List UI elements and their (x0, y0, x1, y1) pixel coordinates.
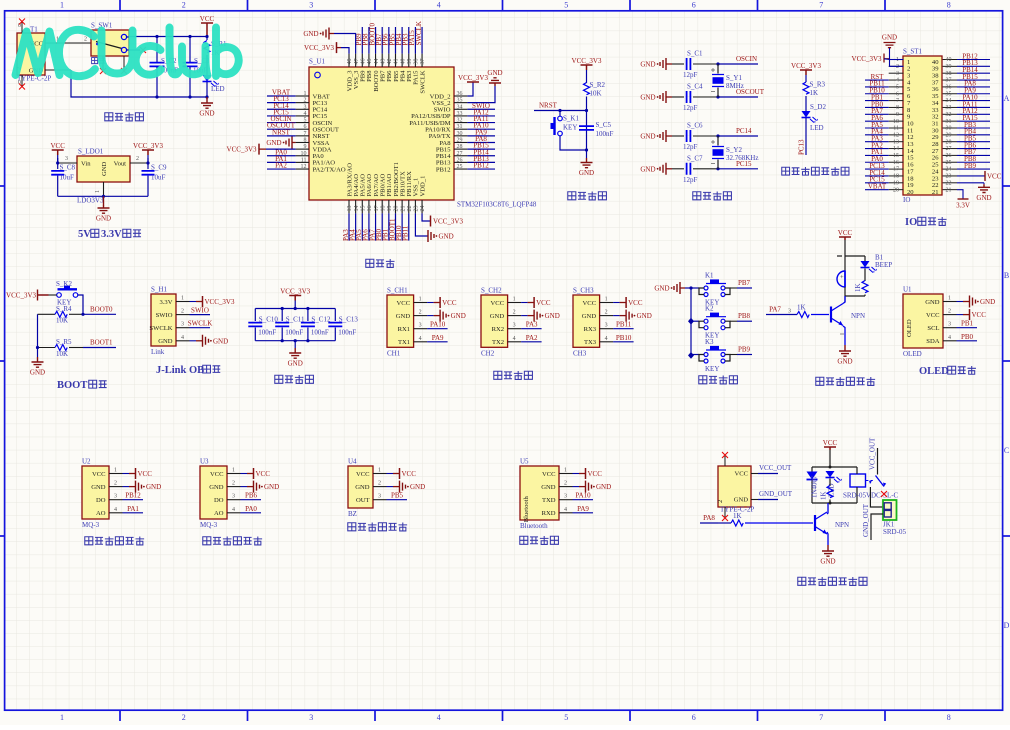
svg-text:SRD-05: SRD-05 (883, 528, 906, 536)
svg-text:1K: 1K (733, 512, 742, 520)
header left pin 18 (889, 175, 904, 177)
svg-text:1K: 1K (820, 491, 828, 500)
svg-text:17: 17 (374, 206, 380, 212)
svg-text:OSCIN: OSCIN (736, 55, 757, 63)
mcu right pin 30 PA9/TX (454, 135, 467, 137)
svg-text:30: 30 (946, 126, 952, 132)
header right pin 32 (943, 113, 957, 115)
wire bottom rail (58, 195, 148, 197)
svg-text:11: 11 (301, 157, 307, 163)
svg-text:GND_OUT: GND_OUT (759, 490, 793, 498)
svg-text:GND_OUT: GND_OUT (862, 503, 870, 537)
svg-text:GND: GND (882, 34, 897, 42)
svg-text:BOOT1: BOOT1 (90, 339, 113, 347)
svg-text:3: 3 (65, 156, 68, 162)
power VCC for LDO (52, 150, 64, 155)
svg-text:PA2/TX/AO: PA2/TX/AO (313, 166, 346, 173)
svg-text:19: 19 (387, 206, 393, 212)
mcu bottom pin 20 PB2/BOOT1 (394, 200, 396, 213)
svg-text:22: 22 (407, 206, 413, 212)
svg-text:1: 1 (513, 297, 516, 303)
svg-text:VCC_OUT: VCC_OUT (759, 464, 792, 472)
relay top rail (812, 466, 857, 468)
ground alarm (844, 345, 846, 348)
crystal S_Y1 8MHz (717, 64, 719, 74)
capacitor S_C12 100nF (307, 309, 309, 322)
svg-text:1: 1 (564, 468, 567, 474)
svg-text:18: 18 (380, 206, 386, 212)
svg-text:VCC: VCC (442, 299, 457, 307)
title alcohol module 1 (85, 537, 93, 545)
svg-text:33: 33 (457, 111, 463, 117)
header left pin 11 (889, 127, 904, 129)
header right pin 38 (943, 72, 957, 74)
svg-text:TX2: TX2 (492, 339, 504, 346)
mcu VSS_3 GND top (323, 28, 329, 40)
net OSCIN (718, 63, 758, 65)
svg-text:3: 3 (513, 323, 516, 329)
svg-text:NPN: NPN (835, 521, 849, 529)
svg-text:39: 39 (407, 59, 413, 65)
svg-text:2: 2 (948, 309, 951, 315)
svg-text:BEEP: BEEP (875, 261, 892, 269)
svg-text:GND: GND (640, 133, 655, 141)
svg-text:28: 28 (457, 144, 463, 150)
svg-text:GND: GND (640, 94, 655, 102)
mcu right pin 28 PB15 (454, 148, 467, 150)
svg-text:6: 6 (304, 124, 307, 130)
module U4 body (348, 466, 373, 508)
svg-text:12pF: 12pF (683, 143, 698, 151)
svg-text:K3: K3 (705, 338, 714, 346)
svg-text:10uF: 10uF (60, 174, 75, 182)
svg-text:VCC_3V3: VCC_3V3 (433, 218, 463, 226)
svg-text:12: 12 (301, 164, 307, 170)
svg-text:GND: GND (487, 69, 502, 77)
mcu bottom pin 19 PB1/AO (388, 200, 390, 213)
svg-text:GND: GND (734, 497, 749, 504)
svg-text:PA2: PA2 (275, 162, 287, 170)
svg-text:GND: GND (199, 110, 214, 118)
svg-text:VCC: VCC (583, 300, 597, 307)
transistor NPN relay (814, 515, 816, 531)
LDO ground pin (103, 182, 105, 196)
LED S_D2 (802, 111, 811, 118)
header left pin 13 (889, 141, 904, 143)
button S_K2 KEY (57, 293, 62, 298)
svg-text:VCC: VCC (823, 439, 838, 447)
svg-text:S_CH1: S_CH1 (387, 287, 408, 295)
svg-text:27: 27 (946, 146, 952, 152)
mcu left pin 4 PC15 (296, 115, 309, 117)
svg-text:100nF: 100nF (258, 329, 276, 337)
svg-text:VCC: VCC (588, 470, 603, 478)
header right pin 21 (943, 189, 957, 191)
svg-text:24: 24 (420, 206, 426, 212)
mcu right pin 36 VDD_2 (454, 95, 467, 97)
svg-text:VCC: VCC (734, 471, 748, 478)
svg-text:4: 4 (437, 713, 441, 722)
svg-text:GND: GND (976, 194, 991, 202)
switch bottom pins no-connect (103, 56, 124, 70)
svg-text:GND: GND (654, 285, 669, 293)
power VCC_3V3 for LDO out (142, 150, 154, 155)
button S_K1 KEY (558, 116, 563, 121)
resistor 1K base (797, 312, 809, 318)
svg-text:7: 7 (304, 131, 307, 137)
svg-text:RX1: RX1 (398, 326, 410, 333)
power VCC_3V3 led (800, 70, 812, 75)
svg-text:3.3V: 3.3V (956, 202, 970, 210)
resistor S_R5 10K (38, 347, 56, 349)
svg-text:29: 29 (946, 132, 952, 138)
relay connector shell pins no-connect (724, 456, 726, 517)
svg-text:VCC: VCC (628, 299, 643, 307)
title dianyuan-dianlu (105, 113, 113, 121)
svg-text:4: 4 (181, 335, 184, 341)
svg-text:PB1: PB1 (961, 320, 974, 328)
svg-text:9: 9 (896, 112, 899, 118)
svg-text:GND: GND (158, 338, 173, 345)
svg-text:34: 34 (457, 104, 463, 110)
capacitor S_C5 100nF (579, 126, 594, 130)
svg-text:38: 38 (414, 59, 420, 65)
svg-text:29: 29 (457, 137, 463, 143)
svg-text:S_K2: S_K2 (56, 280, 72, 288)
svg-text:1N4007: 1N4007 (811, 475, 819, 498)
wire Vout (130, 162, 148, 164)
svg-text:TX3: TX3 (584, 339, 597, 346)
svg-text:2: 2 (84, 37, 87, 43)
svg-text:PA1: PA1 (127, 505, 139, 513)
mcu U1 STM32F103C8T6 body (309, 67, 454, 200)
svg-text:S_Y2: S_Y2 (726, 146, 742, 154)
svg-text:VCC: VCC (402, 470, 417, 478)
svg-text:1: 1 (896, 57, 899, 63)
header right pin 30 (943, 127, 957, 129)
mcu top pin 43 PB7 (381, 54, 383, 67)
svg-text:IO: IO (903, 196, 910, 204)
mcu VDD_2 to VCC_3V3 (467, 82, 473, 96)
svg-text:PB5: PB5 (391, 492, 404, 500)
mcu bottom pin 17 PA7/AO (375, 200, 377, 213)
ground relay (827, 545, 829, 548)
svg-text:14: 14 (354, 206, 360, 212)
svg-text:20: 20 (907, 189, 914, 196)
svg-text:GND: GND (91, 484, 106, 491)
header left pin 5 (889, 86, 904, 88)
capacitor S_C4 12pF (660, 91, 666, 103)
svg-text:PB12: PB12 (436, 166, 451, 173)
svg-text:12pF: 12pF (683, 176, 698, 184)
module U5 body (520, 466, 559, 520)
svg-text:LDO3V3: LDO3V3 (77, 197, 104, 205)
mcu left pin 11 PA1/AO (296, 161, 309, 163)
svg-text:VCC: VCC (536, 299, 551, 307)
svg-text:28: 28 (946, 139, 952, 145)
title reset circuit (568, 192, 576, 200)
net PC14 (718, 135, 758, 137)
svg-text:26: 26 (946, 153, 952, 159)
resistor S_R3 1K (803, 82, 809, 94)
svg-text:VCC: VCC (50, 142, 65, 150)
svg-text:5V: 5V (78, 229, 91, 240)
svg-text:PA7: PA7 (769, 306, 781, 314)
svg-text:19: 19 (893, 180, 899, 186)
svg-text:DO: DO (96, 497, 106, 504)
header pin23 VCC (957, 175, 985, 177)
svg-text:3: 3 (232, 494, 235, 500)
svg-text:37: 37 (946, 78, 952, 84)
svg-text:11: 11 (893, 126, 899, 132)
svg-text:44: 44 (374, 59, 380, 65)
capacitor S_C11 100nF (281, 309, 283, 322)
svg-text:K1: K1 (705, 272, 714, 280)
svg-text:S_R4: S_R4 (56, 305, 72, 313)
svg-text:1: 1 (181, 296, 184, 302)
mcu right pin 32 PA11/USB/DM (454, 122, 467, 124)
svg-text:S_CH2: S_CH2 (481, 287, 502, 295)
transistor NPN alarm (830, 307, 832, 323)
svg-text:38: 38 (946, 71, 952, 77)
svg-text:SDA: SDA (926, 338, 939, 345)
svg-text:A: A (1004, 94, 1010, 103)
svg-text:33: 33 (946, 105, 952, 111)
net GND_OUT wire (871, 514, 883, 540)
svg-text:VCC: VCC (972, 311, 987, 319)
svg-text:GND: GND (596, 483, 611, 491)
mcu VSS_2 to GND (467, 86, 495, 103)
svg-text:PA3: PA3 (526, 321, 538, 329)
svg-text:NPN: NPN (851, 312, 865, 320)
filter bottom rail (255, 340, 335, 342)
relay coil SRD-05VDC-SL-C (850, 474, 866, 487)
svg-text:22: 22 (946, 180, 952, 186)
svg-text:S_C8: S_C8 (60, 164, 76, 172)
resistor S_R2 10K (584, 83, 590, 95)
mcu left pin 8 VSSA (296, 141, 309, 143)
svg-text:4: 4 (419, 336, 422, 342)
svg-text:S_C4: S_C4 (687, 83, 703, 91)
svg-text:U1: U1 (903, 286, 912, 294)
svg-text:S_D2: S_D2 (810, 103, 826, 111)
svg-text:3: 3 (304, 104, 307, 110)
svg-text:21: 21 (932, 189, 939, 196)
svg-text:GND: GND (545, 312, 560, 320)
svg-text:NRST: NRST (539, 102, 558, 110)
resistor S_R1 (206, 37, 208, 41)
svg-text:2: 2 (182, 1, 186, 10)
svg-text:6: 6 (896, 91, 899, 97)
title crystal circuit (693, 192, 701, 200)
svg-text:U2: U2 (82, 458, 91, 466)
svg-text:GND: GND (288, 360, 303, 368)
LED relay (826, 471, 835, 478)
header pin21 3.3V (957, 190, 963, 199)
svg-text:PB9: PB9 (738, 346, 751, 354)
svg-text:RX2: RX2 (492, 326, 504, 333)
net GND_OUT from connector (751, 499, 758, 501)
svg-text:S_C7: S_C7 (687, 154, 703, 162)
svg-text:VCC: VCC (138, 470, 153, 478)
mcu left pin 5 OSCIN (296, 122, 309, 124)
mcu pin8 VSSA ground (286, 136, 292, 148)
svg-text:8: 8 (947, 713, 951, 722)
svg-text:7: 7 (819, 1, 823, 10)
mcu bottom pin 23 VSS_1 (414, 200, 416, 213)
svg-text:4: 4 (304, 111, 307, 117)
svg-text:1K: 1K (810, 89, 819, 97)
svg-text:1: 1 (605, 297, 608, 303)
svg-text:13: 13 (347, 206, 353, 212)
header left pin 19 (889, 182, 904, 184)
svg-text:30: 30 (457, 131, 463, 137)
svg-text:3: 3 (896, 71, 899, 77)
svg-text:GND: GND (925, 299, 940, 306)
svg-text:31: 31 (457, 124, 463, 130)
module S_H1 body (151, 294, 176, 346)
svg-text:10K: 10K (56, 350, 68, 358)
svg-text:CH2: CH2 (481, 349, 495, 357)
MCUclub watermark logo (16, 28, 239, 77)
svg-text:3.3V: 3.3V (159, 299, 172, 306)
title keys circuit (699, 376, 707, 384)
svg-text:3: 3 (788, 309, 791, 315)
svg-text:2: 2 (605, 310, 608, 316)
svg-text:100nF: 100nF (596, 130, 614, 138)
title main chip (366, 259, 374, 267)
svg-text:SWIO: SWIO (156, 312, 173, 319)
header left pin 12 (889, 134, 904, 136)
svg-text:U5: U5 (520, 458, 529, 466)
svg-text:39: 39 (946, 64, 952, 70)
svg-text:VCC_3V3: VCC_3V3 (280, 287, 310, 295)
svg-text:1: 1 (419, 297, 422, 303)
svg-text:VCC: VCC (491, 300, 505, 307)
wire GND rail down (71, 70, 207, 97)
svg-text:8: 8 (947, 1, 951, 10)
svg-text:10uF: 10uF (151, 174, 166, 182)
svg-text:PB11: PB11 (616, 321, 632, 329)
capacitor S_C9 (147, 163, 149, 169)
mcu top pin 48 VDD_3 (348, 54, 350, 67)
svg-text:GND: GND (490, 313, 505, 320)
svg-text:U3: U3 (200, 458, 209, 466)
wire alarm bottom join (845, 295, 865, 297)
capacitor S_C3 (189, 37, 191, 63)
svg-text:5: 5 (896, 85, 899, 91)
svg-text:16: 16 (367, 206, 373, 212)
svg-text:100nF: 100nF (311, 329, 329, 337)
svg-text:7: 7 (819, 713, 823, 722)
header right pin 39 (943, 65, 957, 67)
mcu top pin 40 PB4 (401, 54, 403, 67)
svg-text:PB11: PB11 (402, 225, 410, 241)
header left pin 20 (889, 189, 904, 191)
svg-text:15: 15 (893, 153, 899, 159)
svg-text:PA8: PA8 (703, 514, 715, 522)
svg-text:RX3: RX3 (584, 326, 597, 333)
svg-text:35: 35 (457, 98, 463, 104)
svg-text:40: 40 (400, 59, 406, 65)
svg-text:S_K1: S_K1 (563, 115, 579, 123)
svg-text:100nF: 100nF (285, 329, 303, 337)
mcu top pin 44 BOOT0 (375, 54, 377, 67)
svg-text:12: 12 (893, 132, 899, 138)
wire K2 to BOOT0 (78, 295, 83, 314)
svg-text:10K: 10K (56, 317, 68, 325)
svg-text:6: 6 (692, 713, 696, 722)
module S_CH3 body (573, 295, 600, 347)
mcu left pin 6 OSCOUT (296, 128, 309, 130)
connector JK1 SRD-05 (883, 500, 897, 520)
svg-text:SCL: SCL (927, 325, 939, 332)
svg-text:AO: AO (96, 510, 106, 517)
mcu top pin 42 PB6 (388, 54, 390, 67)
power VCC (201, 23, 213, 37)
header left pin 8 (889, 106, 904, 108)
svg-text:8: 8 (304, 137, 307, 143)
resistor 1K relay base (731, 520, 743, 526)
mcu left pin 10 PA0 (296, 155, 309, 157)
svg-text:GND: GND (820, 558, 835, 566)
svg-text:VCC: VCC (397, 300, 411, 307)
header right pin 36 (943, 86, 957, 88)
svg-text:14: 14 (893, 146, 899, 152)
keys common vertical wire (690, 288, 692, 356)
svg-text:GND: GND (264, 483, 279, 491)
svg-text:PA9: PA9 (432, 334, 444, 342)
wire alarm top split (845, 255, 865, 257)
svg-text:MQ-3: MQ-3 (200, 521, 218, 529)
ground power circuit (206, 97, 208, 100)
svg-text:VCC_3V3: VCC_3V3 (6, 292, 36, 300)
svg-text:4: 4 (896, 78, 899, 84)
title alarm circuit (816, 377, 824, 385)
svg-text:GND: GND (637, 312, 652, 320)
svg-text:LED: LED (211, 85, 225, 93)
svg-text:GND: GND (579, 169, 594, 177)
svg-text:GND: GND (541, 484, 556, 491)
net BOOT0 (83, 313, 116, 315)
mcu right pin 33 PA12/USB/DP (454, 115, 467, 117)
svg-text:1: 1 (232, 468, 235, 474)
ground filter (294, 341, 296, 348)
svg-text:D: D (1004, 621, 1010, 630)
svg-text:S_C1: S_C1 (687, 50, 703, 58)
svg-text:VCC: VCC (210, 471, 224, 478)
header left pin 4 (889, 79, 904, 81)
header left pin 15 (889, 154, 904, 156)
ground reset (586, 150, 588, 158)
mcu bottom pin 16 PA6/AO (368, 200, 370, 213)
svg-text:S_LDO1: S_LDO1 (78, 148, 104, 156)
svg-text:S_Y1: S_Y1 (726, 74, 742, 82)
mcu VSS_1 to GND (415, 213, 428, 236)
header right pin 27 (943, 148, 957, 150)
title program run indicator (782, 167, 790, 175)
buzzer B1 BEEP (844, 256, 846, 271)
mcu top pin 39 PB3 (408, 54, 410, 67)
button K1 KEY (704, 286, 708, 290)
svg-text:IO: IO (905, 217, 917, 228)
mcu left pin 3 PC14 (296, 108, 309, 110)
module S_CH1 body (387, 295, 414, 347)
svg-text:PA9: PA9 (577, 505, 589, 513)
svg-text:VCC: VCC (200, 15, 215, 23)
svg-text:VCC_3V3: VCC_3V3 (572, 57, 602, 65)
title filter circuit (275, 375, 283, 383)
